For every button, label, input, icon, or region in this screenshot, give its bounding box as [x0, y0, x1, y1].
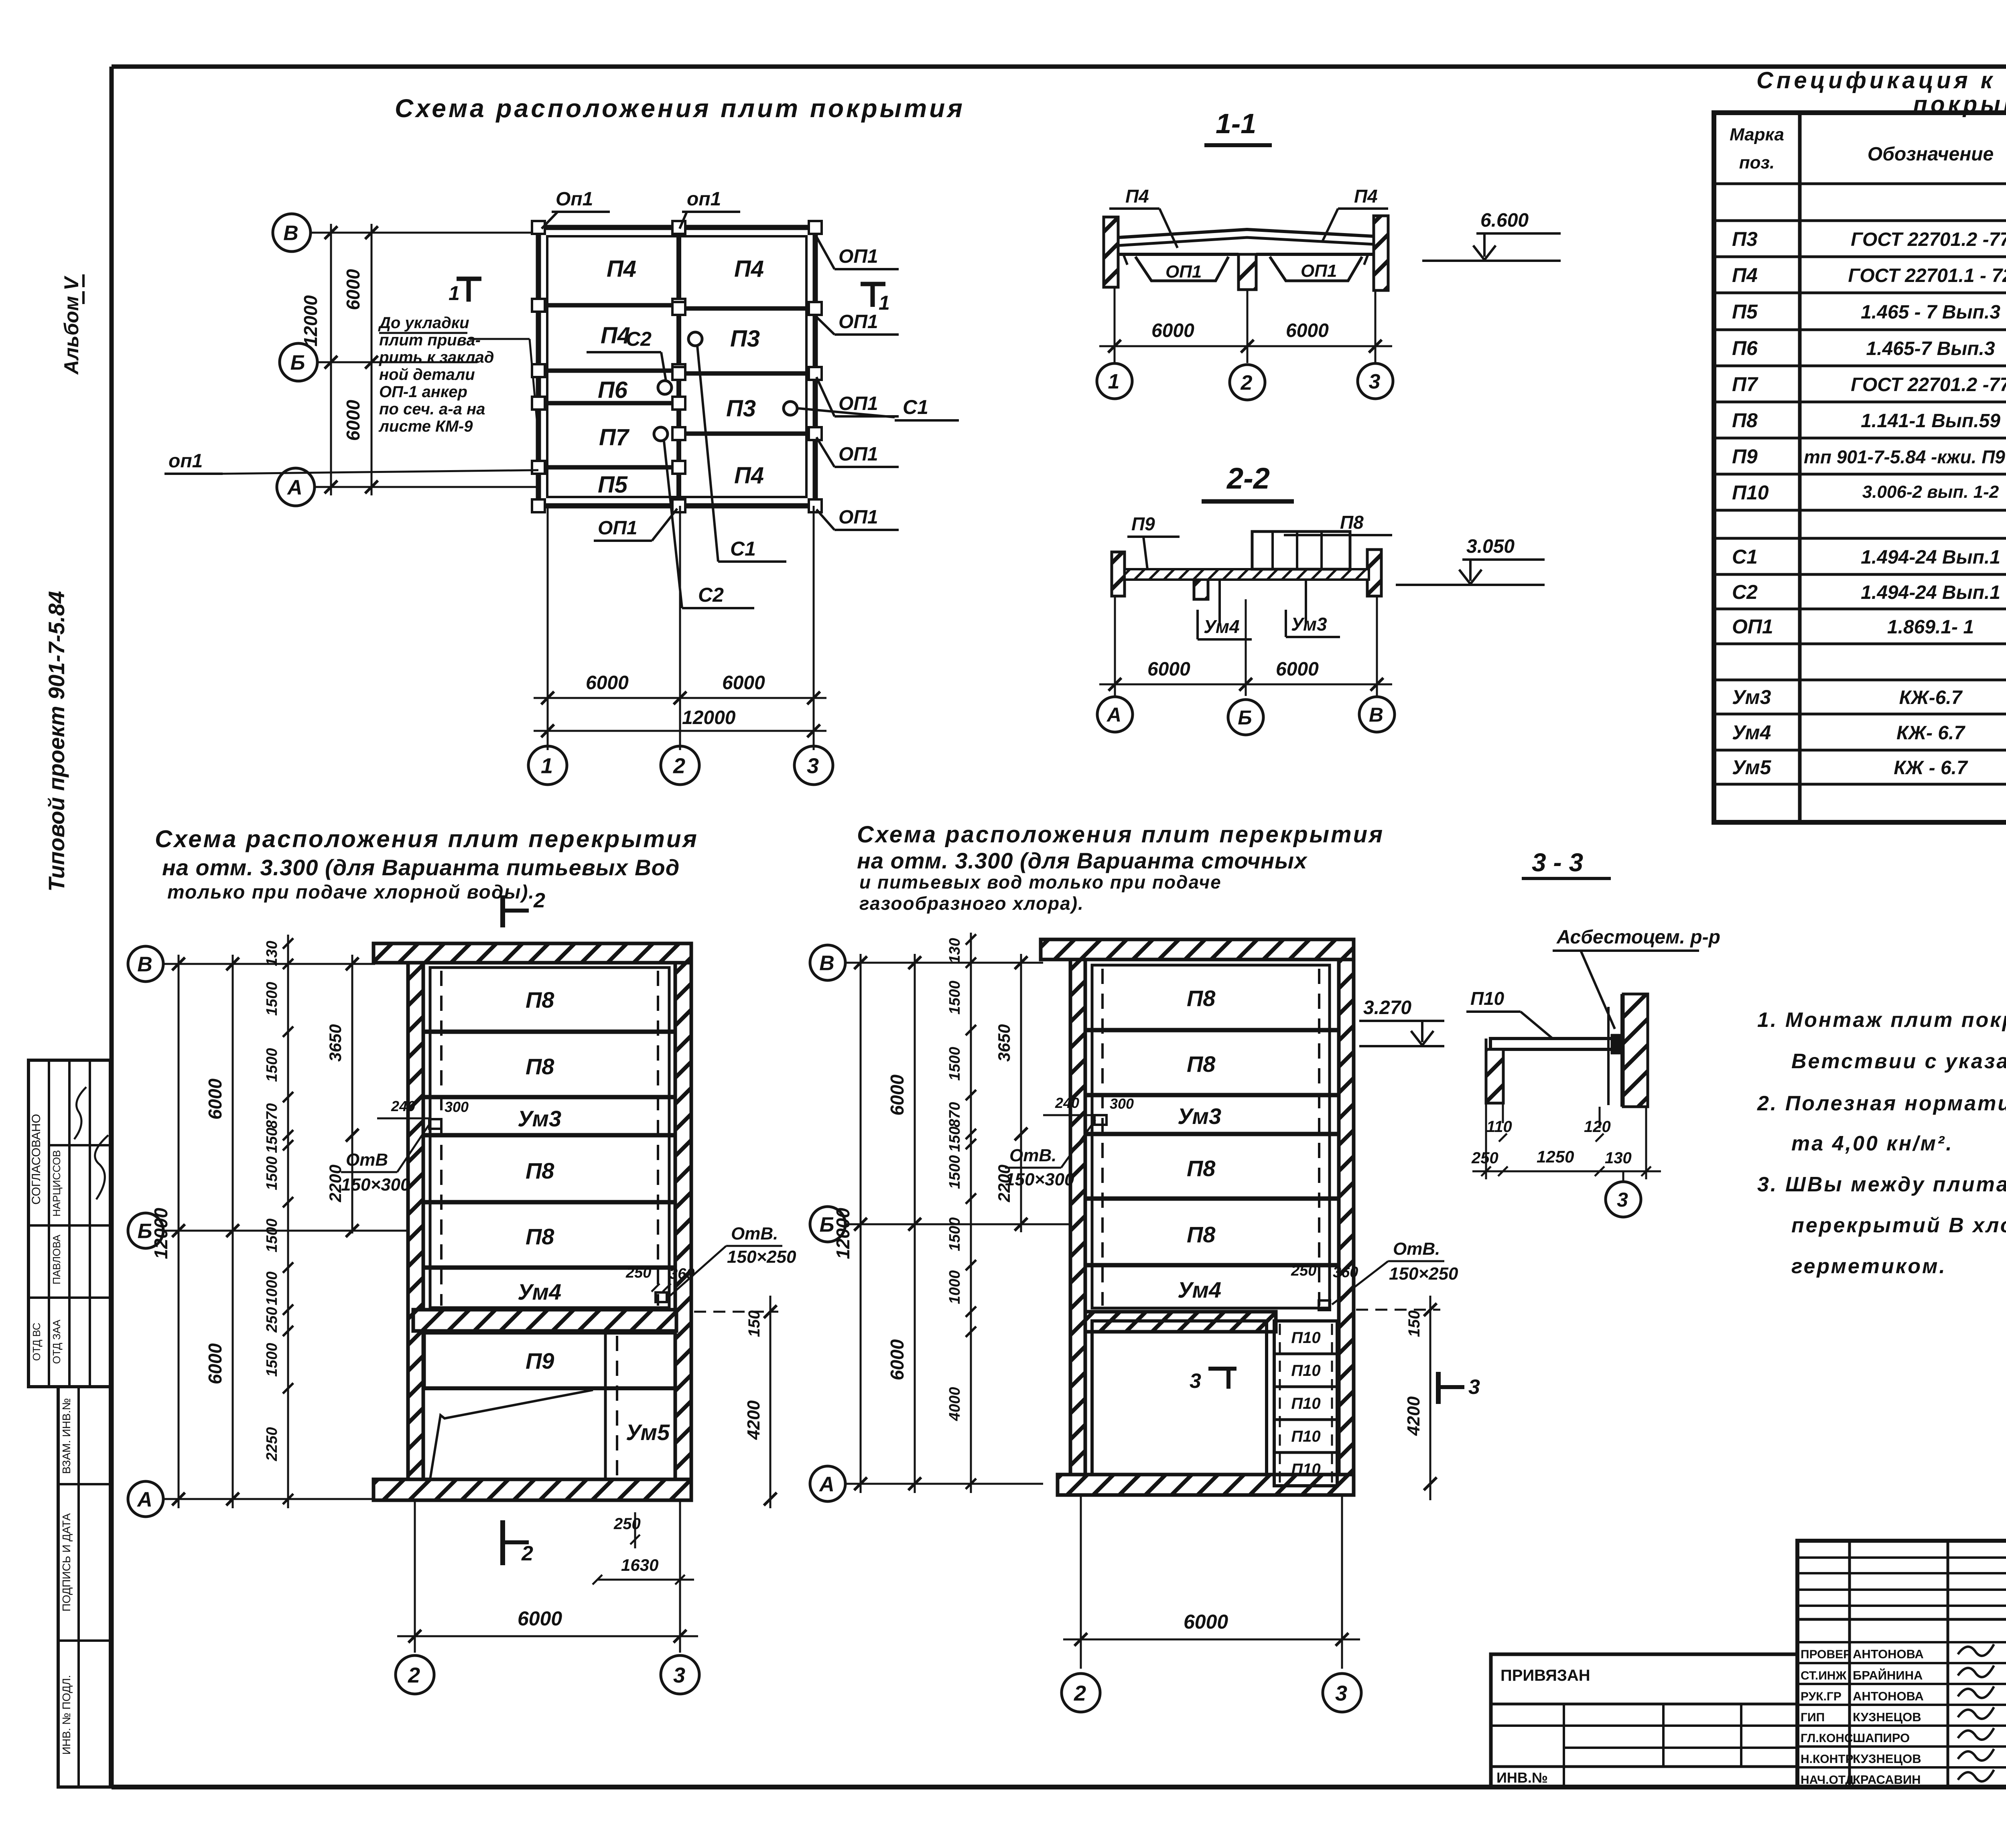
svg-text:3: 3	[1369, 370, 1381, 394]
svg-text:1630: 1630	[621, 1556, 658, 1574]
plan1 left wall	[408, 963, 423, 1479]
svg-text:Ум3: Ум3	[1291, 614, 1327, 635]
plan2 right dim 150/4200	[1356, 1296, 1440, 1500]
svg-text:А: А	[1106, 704, 1121, 726]
svg-text:герметиком.: герметиком.	[1791, 1255, 1947, 1278]
стакан С1 circle	[688, 332, 797, 415]
svg-text:П6: П6	[598, 377, 628, 403]
svg-text:ИНВ.№: ИНВ.№	[1496, 1769, 1548, 1786]
plan2 middle wall	[1085, 1312, 1276, 1332]
svg-text:2: 2	[673, 754, 685, 778]
row П8	[1732, 409, 2006, 432]
svg-text:ОП1: ОП1	[1301, 261, 1337, 281]
section 1-1 right wall	[1374, 216, 1388, 290]
svg-text:6000: 6000	[887, 1074, 908, 1116]
label оп1 left	[164, 450, 538, 474]
plan1 right dim 150/4200	[694, 1296, 778, 1508]
svg-text:ОП1: ОП1	[839, 393, 878, 414]
svg-text:П4: П4	[734, 256, 764, 282]
svg-text:КЖ-6.7: КЖ-6.7	[1899, 687, 1963, 708]
П10 label detail	[1466, 988, 1553, 1039]
svg-text:150×250: 150×250	[1389, 1264, 1458, 1284]
svg-text:СОГЛАСОВАНО: СОГЛАСОВАНО	[30, 1114, 43, 1205]
svg-text:П8: П8	[1187, 986, 1216, 1011]
plan2 lower room	[1092, 1321, 1267, 1475]
label ОП1 bottom	[594, 509, 677, 541]
notes	[1757, 1008, 2006, 1278]
section 1-1 left wall	[1104, 217, 1118, 287]
svg-text:1.141-1 Вып.59: 1.141-1 Вып.59	[1861, 410, 2000, 432]
plan2 grid bubble В	[810, 945, 1043, 980]
svg-text:ОП1: ОП1	[1165, 262, 1202, 282]
svg-text:130: 130	[946, 938, 963, 963]
svg-text:6000: 6000	[343, 269, 363, 310]
svg-text:Ум3: Ум3	[1178, 1104, 1221, 1129]
ОП1 pads	[532, 221, 822, 512]
svg-text:ИНВ. № ПОДЛ.: ИНВ. № ПОДЛ.	[60, 1675, 73, 1755]
svg-text:П6: П6	[1732, 337, 1758, 359]
svg-text:на отм. 3.300 (для Варианта ст: на отм. 3.300 (для Варианта сточных	[857, 848, 1308, 873]
plan1 opening right 150x250	[625, 1224, 796, 1302]
svg-text:П10: П10	[1291, 1395, 1320, 1412]
svg-text:ОтВ.: ОтВ.	[1393, 1239, 1440, 1259]
svg-text:А: А	[136, 1488, 152, 1511]
row С1	[1732, 546, 2006, 568]
svg-text:300: 300	[1110, 1095, 1134, 1112]
svg-text:1250: 1250	[1537, 1147, 1574, 1166]
svg-text:6000: 6000	[1286, 320, 1329, 341]
label С2 bottom	[664, 441, 754, 608]
plan2 slab joints	[1086, 1030, 1338, 1265]
plan2 dim chain small	[946, 933, 976, 1493]
label С2	[587, 328, 666, 381]
svg-text:ОП-1 анкер: ОП-1 анкер	[379, 383, 467, 401]
svg-text:ОП1: ОП1	[839, 444, 878, 465]
svg-text:НАРЦИССОВ: НАРЦИССОВ	[51, 1150, 63, 1217]
svg-text:П5: П5	[1732, 300, 1758, 323]
svg-text:П7: П7	[1732, 373, 1758, 396]
svg-text:ПРОВЕР: ПРОВЕР	[1801, 1648, 1851, 1661]
label Ум3	[1286, 580, 1340, 637]
svg-text:2-2: 2-2	[1226, 462, 1270, 495]
svg-text:1500: 1500	[946, 981, 963, 1015]
plan1 slab joints	[424, 1032, 676, 1268]
dim 6000 6000 vertical	[343, 224, 378, 495]
svg-text:оп1: оп1	[687, 189, 721, 210]
svg-text:300: 300	[445, 1099, 469, 1115]
plan2 opening left	[1005, 1095, 1134, 1189]
svg-text:ГОСТ 22701.2 -77: ГОСТ 22701.2 -77	[1851, 374, 2006, 396]
svg-text:П8: П8	[1187, 1222, 1216, 1247]
svg-text:870: 870	[264, 1103, 280, 1128]
svg-text:250: 250	[1291, 1262, 1316, 1279]
svg-text:2: 2	[408, 1663, 420, 1687]
svg-text:1500: 1500	[946, 1155, 963, 1189]
svg-text:С2: С2	[626, 328, 652, 350]
plan1 dim 12000	[150, 955, 185, 1508]
svg-text:П8: П8	[526, 1054, 554, 1079]
svg-text:3650: 3650	[995, 1024, 1013, 1061]
svg-text:КРАСАВИН: КРАСАВИН	[1853, 1773, 1921, 1787]
svg-text:КУЗНЕЦОВ: КУЗНЕЦОВ	[1853, 1752, 1921, 1766]
section 2-2 title	[1202, 462, 1294, 501]
section 1-1 roof slabs	[1118, 229, 1374, 265]
3-3 dims	[1471, 1103, 1661, 1179]
grid bubble Б	[280, 343, 477, 381]
note до укладки	[378, 314, 538, 437]
section 2-2 bubbles А Б В	[1097, 697, 1395, 735]
svg-text:ОтВ.: ОтВ.	[731, 1224, 778, 1243]
row П9	[1732, 445, 2006, 468]
svg-text:2. Полезная нормативная н: 2. Полезная нормативная нагрузка на пере…	[1757, 1092, 2006, 1115]
svg-text:12000: 12000	[682, 707, 736, 728]
plan2 П10 stack	[1274, 1321, 1337, 1486]
svg-text:Схема расположения плит перекр: Схема расположения плит перекрытия	[155, 826, 698, 852]
svg-text:Ум5: Ум5	[626, 1420, 670, 1445]
svg-text:плит прива-: плит прива-	[379, 331, 481, 349]
plan1 dim 6000 6000	[205, 955, 239, 1508]
plan1 right wall	[675, 963, 691, 1479]
svg-text:150: 150	[745, 1310, 763, 1337]
svg-text:ОтВ: ОтВ	[346, 1150, 388, 1170]
svg-text:150: 150	[1405, 1310, 1423, 1337]
plan1 grid bubble В	[128, 946, 375, 982]
svg-text:Ум4: Ум4	[1204, 616, 1240, 637]
svg-text:перекрытий В хлордозаторной: перекрытий В хлордозаторной снизу тщател…	[1791, 1214, 2006, 1237]
plan1 middle wall	[413, 1310, 676, 1331]
svg-text:Ум4: Ум4	[1732, 721, 1771, 744]
svg-text:3: 3	[807, 754, 819, 778]
level 3.050	[1396, 536, 1545, 585]
svg-text:П10: П10	[1291, 1428, 1320, 1445]
svg-text:4200: 4200	[744, 1400, 763, 1440]
стакан С2 circle	[654, 381, 672, 441]
slab joints right half	[679, 308, 815, 434]
svg-text:П3: П3	[726, 396, 756, 422]
svg-text:ОП1: ОП1	[839, 311, 878, 333]
plan1 bottom wall	[374, 1479, 691, 1500]
plan2 dim 3650 2200	[995, 954, 1027, 1232]
svg-text:БРАЙНИНА: БРАЙНИНА	[1853, 1668, 1923, 1682]
svg-text:1000: 1000	[946, 1270, 963, 1304]
svg-text:250: 250	[613, 1515, 641, 1533]
svg-text:П10: П10	[1732, 481, 1769, 504]
svg-text:1. Монтаж плит покрытия и: 1. Монтаж плит покрытия и перекрытия Вес…	[1757, 1008, 2006, 1032]
svg-text:150×300: 150×300	[341, 1175, 410, 1195]
svg-text:Ум3: Ум3	[518, 1106, 561, 1131]
svg-text:В: В	[283, 222, 298, 245]
svg-text:П4: П4	[1354, 186, 1378, 207]
title схема перекрытия (сточных)	[857, 822, 1384, 914]
svg-text:Н.КОНТР: Н.КОНТР	[1801, 1753, 1854, 1766]
svg-text:1500: 1500	[264, 1219, 280, 1253]
plan1 top wall	[374, 943, 691, 963]
svg-text:2: 2	[1241, 371, 1253, 395]
svg-text:150×250: 150×250	[727, 1247, 796, 1267]
ОП1 bucket left	[1135, 257, 1228, 282]
svg-text:П4: П4	[1732, 264, 1758, 286]
svg-text:6000: 6000	[586, 672, 629, 694]
svg-text:Ум4: Ум4	[518, 1279, 561, 1304]
plan2 inner slab edge	[1092, 965, 1330, 1308]
svg-text:3: 3	[1617, 1189, 1628, 1211]
label Оп1 top left	[542, 189, 610, 229]
svg-text:П10: П10	[1291, 1329, 1320, 1347]
middle beam	[676, 227, 681, 506]
svg-text:Обозначение: Обозначение	[1868, 144, 1994, 165]
svg-text:3650: 3650	[326, 1024, 345, 1061]
dim 12000 vertical	[300, 224, 337, 495]
plan2 bottom wall	[1058, 1475, 1354, 1495]
svg-text:870: 870	[946, 1102, 963, 1127]
svg-text:КЖ- 6.7: КЖ- 6.7	[1896, 722, 1965, 744]
3-3 right wall	[1608, 994, 1648, 1107]
svg-text:1: 1	[1108, 370, 1120, 394]
svg-text:6000: 6000	[1151, 320, 1194, 341]
spec table header	[1730, 116, 2006, 184]
svg-text:П8: П8	[1340, 512, 1364, 533]
bottom dims roof plan	[534, 506, 826, 750]
section mark 1 (right)	[861, 284, 890, 314]
label оп1 top mid	[680, 189, 740, 229]
svg-text:1500: 1500	[264, 1048, 280, 1082]
svg-text:3.050: 3.050	[1466, 536, 1515, 557]
svg-text:ОП1: ОП1	[1732, 615, 1773, 638]
svg-text:Б: Б	[290, 351, 305, 375]
svg-text:12000: 12000	[300, 295, 321, 347]
svg-text:В: В	[1369, 704, 1383, 726]
row Ум5	[1732, 756, 2006, 779]
plan1 bottom dim 6000	[397, 1500, 698, 1653]
label П8 section	[1284, 512, 1392, 535]
svg-text:ОТД ВС: ОТД ВС	[30, 1323, 43, 1361]
svg-text:П4: П4	[734, 463, 764, 489]
svg-text:только при подаче хлорной во: только при подаче хлорной воды).	[167, 882, 535, 903]
svg-text:6000: 6000	[205, 1343, 225, 1384]
svg-text:П9: П9	[526, 1348, 554, 1373]
svg-text:ОП1: ОП1	[839, 507, 878, 528]
svg-text:150: 150	[264, 1128, 280, 1153]
svg-text:Ветствии с указаниями ГОСТ 2: Ветствии с указаниями ГОСТ 22701.0 -77, …	[1791, 1050, 2006, 1073]
plan2 grid bubble Б	[810, 1207, 1075, 1242]
svg-text:Б: Б	[820, 1213, 834, 1237]
section 1-1 bubbles 1 2 3	[1097, 363, 1393, 400]
label С1 bottom	[697, 346, 786, 562]
svg-text:Марка: Марка	[1730, 125, 1784, 144]
svg-text:6000: 6000	[343, 400, 363, 441]
section mark 2 bottom	[503, 1520, 533, 1565]
slab joints left half	[538, 305, 679, 467]
асбестоцем label	[1553, 927, 1720, 1029]
svg-text:по сеч. а-а на: по сеч. а-а на	[379, 400, 485, 418]
svg-text:ВЗАМ. ИНВ.№: ВЗАМ. ИНВ.№	[60, 1398, 73, 1474]
title схема перекрытия (питьевых)	[155, 826, 698, 903]
svg-text:6000: 6000	[1184, 1611, 1228, 1633]
grid bubble В	[273, 214, 540, 252]
section 2-2 right wall	[1367, 550, 1381, 596]
svg-text:П8: П8	[1187, 1156, 1216, 1181]
plan1 слаб П9	[424, 1333, 676, 1388]
section 1-1 middle pier	[1239, 254, 1256, 290]
svg-text:2250: 2250	[264, 1427, 280, 1462]
svg-text:П10: П10	[1470, 988, 1504, 1009]
svg-text:1: 1	[879, 292, 890, 314]
svg-text:П3: П3	[730, 326, 760, 352]
plan2 bubbles 2 3	[1062, 1674, 1361, 1712]
svg-text:П9: П9	[1131, 513, 1155, 534]
svg-text:Типовой проект 901-7-5.84: Типовой проект 901-7-5.84	[44, 591, 69, 891]
section 2-2 mid pier	[1194, 570, 1208, 599]
svg-text:2: 2	[533, 889, 545, 912]
3-3 slab	[1490, 1035, 1622, 1053]
svg-text:6000: 6000	[1147, 659, 1190, 680]
plan1 dashed edges	[441, 971, 658, 1306]
svg-text:1500: 1500	[264, 1156, 280, 1191]
svg-text:12000: 12000	[150, 1208, 171, 1259]
row П4	[1732, 264, 2006, 286]
svg-text:4000: 4000	[946, 1387, 963, 1422]
svg-text:С1: С1	[730, 538, 756, 560]
grid bubble А	[277, 468, 540, 506]
section 2-2 slab	[1125, 569, 1369, 580]
svg-text:В: В	[819, 952, 834, 975]
svg-text:6000: 6000	[887, 1339, 908, 1380]
svg-text:та 4,00 кн/м².: та 4,00 кн/м².	[1791, 1132, 1953, 1155]
section 2-2 left wall	[1112, 552, 1125, 596]
svg-text:КУЗНЕЦОВ: КУЗНЕЦОВ	[1853, 1710, 1921, 1724]
label П4 right 1-1	[1322, 186, 1388, 242]
svg-text:Оп1: Оп1	[556, 189, 593, 210]
svg-text:1: 1	[541, 754, 553, 778]
svg-text:6000: 6000	[722, 672, 765, 694]
svg-text:3: 3	[1468, 1375, 1480, 1399]
svg-text:250: 250	[264, 1307, 280, 1333]
svg-text:П8: П8	[1732, 409, 1758, 432]
svg-text:П8: П8	[526, 987, 554, 1012]
svg-text:Б: Б	[138, 1220, 152, 1243]
plan2 left wall	[1070, 959, 1085, 1475]
svg-text:240: 240	[1055, 1095, 1079, 1111]
svg-text:250: 250	[625, 1264, 651, 1281]
svg-text:оп1: оп1	[169, 450, 203, 472]
label Ум4	[1198, 580, 1252, 639]
svg-text:П8: П8	[526, 1158, 554, 1183]
svg-text:С1: С1	[1732, 546, 1758, 568]
svg-text:поз.: поз.	[1739, 153, 1775, 172]
spec table grid	[1714, 113, 2006, 822]
svg-text:ГОСТ 22701.2 -77: ГОСТ 22701.2 -77	[1851, 229, 2006, 250]
section 3-3 title	[1522, 848, 1611, 878]
plan2 dim 6000 6000	[887, 954, 921, 1493]
label С1 right	[798, 396, 959, 420]
svg-text:6000: 6000	[518, 1607, 562, 1630]
section 2-2 upper slab П8	[1252, 531, 1350, 569]
svg-text:3: 3	[1190, 1369, 1201, 1393]
svg-text:2: 2	[1074, 1681, 1086, 1705]
svg-text:П9: П9	[1732, 445, 1758, 468]
svg-text:3. ШВы между плитами покры: 3. ШВы между плитами покрытия, плитами м…	[1757, 1173, 2006, 1196]
row П7	[1732, 373, 2006, 396]
plan1 opening left 150x300	[341, 1098, 469, 1195]
svg-text:ОтВ.: ОтВ.	[1009, 1146, 1056, 1165]
section 2-2 dims	[1099, 596, 1392, 696]
svg-text:С2: С2	[698, 584, 724, 606]
plan2 level 3.270	[1359, 997, 1444, 1046]
svg-text:и питьевых вод только при: и питьевых вод только при подаче	[859, 872, 1222, 893]
svg-text:До укладки: До укладки	[378, 314, 469, 332]
plan2 grid bubble А	[810, 1466, 1043, 1501]
svg-text:на отм. 3.300 (для Варианта пи: на отм. 3.300 (для Варианта питьевых Вод	[162, 855, 680, 880]
plan1 dim 3650 2200	[326, 955, 359, 1237]
svg-text:листе КМ-9: листе КМ-9	[378, 418, 473, 435]
svg-text:250: 250	[1471, 1149, 1498, 1167]
svg-text:ОТД ЗАА: ОТД ЗАА	[51, 1319, 63, 1364]
svg-text:ГЛ.КОНС.: ГЛ.КОНС.	[1801, 1732, 1856, 1745]
svg-text:АНТОНОВА: АНТОНОВА	[1853, 1647, 1924, 1661]
ОП1 bucket right	[1270, 257, 1362, 281]
svg-text:С2: С2	[1732, 581, 1758, 603]
svg-text:1500: 1500	[946, 1047, 963, 1081]
row ОП1	[1732, 615, 2006, 638]
svg-text:2: 2	[521, 1542, 533, 1565]
svg-text:Спецификация к схемам распо: Спецификация к схемам расположения плит	[1756, 67, 2006, 93]
svg-text:АНТОНОВА: АНТОНОВА	[1853, 1689, 1924, 1703]
svg-text:3: 3	[1335, 1681, 1347, 1705]
svg-text:П10: П10	[1291, 1461, 1320, 1478]
svg-text:Б: Б	[1238, 706, 1252, 729]
svg-text:П4: П4	[1125, 186, 1149, 207]
plan1 bubbles 2 3	[396, 1655, 699, 1694]
svg-text:120: 120	[1584, 1118, 1611, 1136]
approval margin table	[28, 1060, 110, 1387]
svg-text:3.006-2 вып. 1-2: 3.006-2 вып. 1-2	[1862, 482, 1999, 502]
svg-text:Ум5: Ум5	[1732, 756, 1772, 779]
титульный штамп	[1797, 1541, 2006, 1787]
svg-text:П5: П5	[598, 472, 628, 498]
plan2 opening right	[1291, 1239, 1458, 1310]
section mark 3 inner	[1190, 1369, 1236, 1393]
project label	[44, 591, 69, 891]
column bubbles 1 2 3	[528, 746, 833, 785]
svg-text:Альбом V: Альбом V	[60, 276, 83, 375]
plan1 grid bubble Б	[128, 1213, 409, 1248]
штамп подписи	[1801, 1644, 1994, 1787]
svg-text:В: В	[137, 953, 152, 976]
row П3	[1732, 228, 2006, 250]
svg-text:6.600: 6.600	[1480, 210, 1529, 231]
svg-text:ОП1: ОП1	[839, 246, 878, 267]
svg-text:тп 901-7-5.84 -кжи. П9: тп 901-7-5.84 -кжи. П9	[1804, 446, 2005, 467]
svg-text:110: 110	[1486, 1118, 1512, 1136]
svg-text:1.465-7 Вып.3: 1.465-7 Вып.3	[1866, 338, 1995, 359]
level 6.600	[1422, 210, 1561, 261]
plan2 dashed edges	[1102, 969, 1319, 1306]
svg-text:1000: 1000	[264, 1272, 280, 1306]
svg-text:газообразного хлора).: газообразного хлора).	[859, 893, 1084, 914]
svg-text:С1: С1	[903, 396, 928, 418]
svg-text:П4: П4	[607, 256, 636, 282]
row П10	[1732, 481, 2006, 504]
svg-text:ГИП: ГИП	[1801, 1711, 1825, 1724]
label П9	[1127, 513, 1180, 569]
section mark 1 (left)	[449, 279, 481, 304]
svg-text:П8: П8	[1187, 1051, 1216, 1077]
привязан block	[1491, 1654, 1797, 1787]
plan1 Ум5 area	[430, 1333, 670, 1479]
svg-text:360: 360	[669, 1266, 694, 1282]
svg-text:1500: 1500	[946, 1217, 963, 1252]
svg-text:1500: 1500	[264, 1343, 280, 1377]
